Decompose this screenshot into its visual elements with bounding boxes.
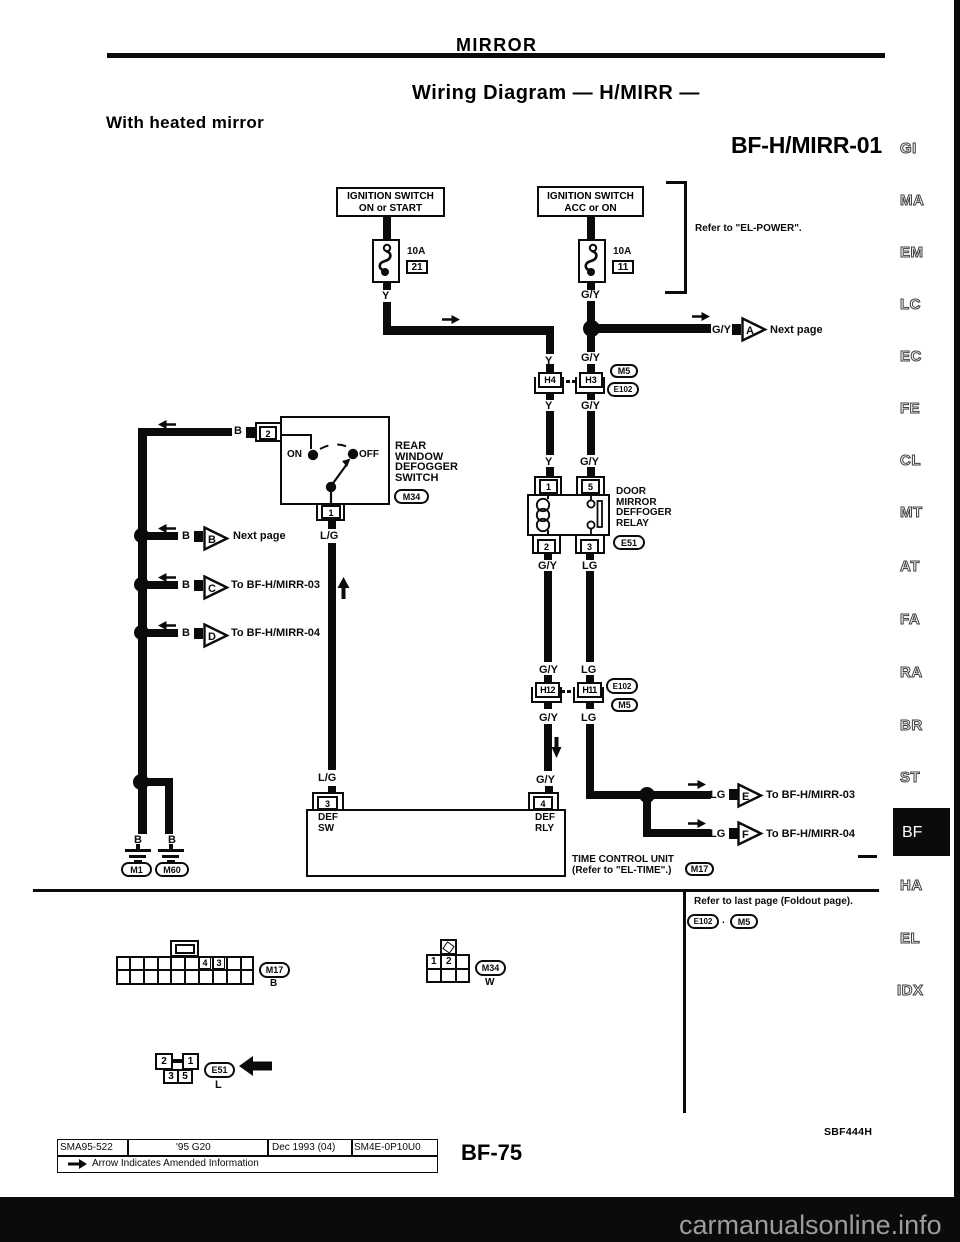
svg-text:F: F (742, 829, 749, 841)
svg-text:B: B (208, 534, 216, 546)
svg-text:A: A (746, 325, 754, 337)
svg-text:E: E (742, 791, 749, 803)
svg-text:C: C (208, 583, 216, 595)
svg-text:D: D (208, 631, 216, 643)
